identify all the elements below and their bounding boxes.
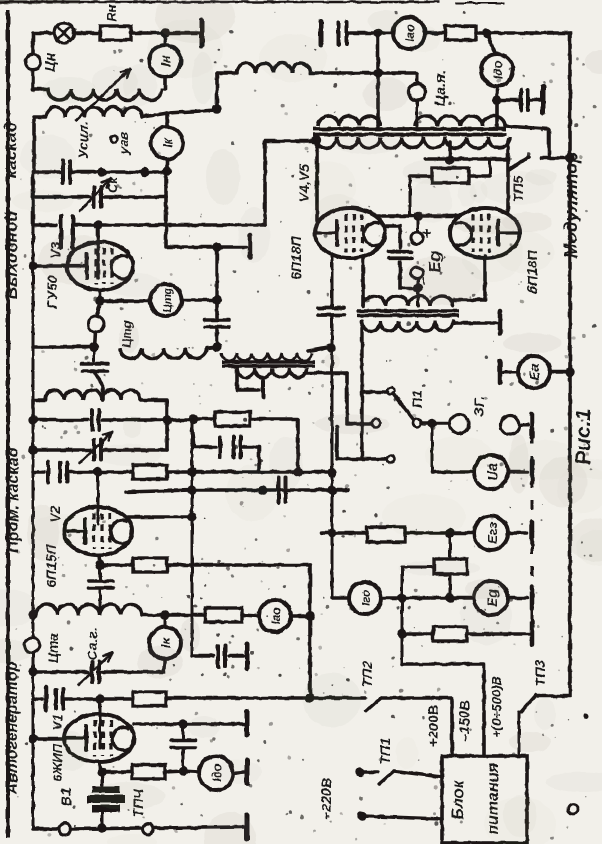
coil mod primary B <box>315 137 510 148</box>
label Rn <box>104 4 119 21</box>
node Eg <box>445 593 454 602</box>
contact P1 a <box>388 388 395 395</box>
bar screen cap <box>218 437 222 457</box>
node cathode choke right <box>212 342 221 351</box>
meter Ido osc <box>199 756 233 790</box>
wire screen cap branch <box>192 430 216 447</box>
wire B+ riser <box>376 33 380 126</box>
scan border left edge <box>6 10 10 838</box>
wire row656 <box>192 654 213 658</box>
svg-text:Егз: Егз <box>485 522 500 544</box>
node choke join <box>212 104 221 113</box>
wire center tap <box>448 142 452 160</box>
capacitor anode <box>172 741 196 748</box>
capacitor row656 <box>218 646 225 667</box>
wire screen R corner <box>250 419 298 472</box>
contact P1 d <box>387 455 395 463</box>
terminal Umg jack <box>88 316 104 332</box>
ground bar drv1 <box>261 381 265 398</box>
label TP3 <box>532 660 548 687</box>
wire Ea to bus <box>550 370 570 374</box>
meter Ido <box>481 54 513 86</box>
wire drv1 bottom right <box>305 371 347 375</box>
node bus coil <box>28 610 37 619</box>
wire anode row b <box>76 223 265 227</box>
wire to screen R <box>194 417 215 421</box>
bar Ua <box>530 461 535 484</box>
wire row699 a <box>33 697 42 701</box>
wire Egz row mid <box>405 531 474 535</box>
wire cath to R <box>102 770 132 774</box>
wire V402 <box>401 567 404 664</box>
node cathode left <box>89 342 98 351</box>
wire Ido right <box>233 772 244 773</box>
resistor V2 grid <box>133 465 167 479</box>
wire bus left main <box>32 172 35 829</box>
svg-text:Сa.г.: Сa.г. <box>84 628 100 661</box>
wire drv1 top right <box>308 343 336 352</box>
wire contact1 feed <box>362 390 388 394</box>
coil mod secondary A <box>415 116 505 126</box>
wire grid row b <box>67 470 133 474</box>
wire 220 upper <box>355 767 378 776</box>
node Ik tap <box>160 610 169 619</box>
stray circle <box>568 804 578 814</box>
node row1 b <box>140 167 149 176</box>
wire winding A out <box>505 126 549 158</box>
plate choke feed <box>217 71 237 75</box>
node A row533 <box>327 528 336 537</box>
wire minus drop <box>417 279 420 288</box>
wire R to Iae <box>242 615 258 616</box>
wire Umg drop <box>215 300 219 318</box>
capacitor V2 cath <box>89 565 114 588</box>
wire crystal down <box>101 812 104 827</box>
meter Ua <box>474 455 508 489</box>
lamp indicator <box>54 23 74 43</box>
meter Iae <box>259 600 291 632</box>
wire TP5 right <box>541 153 575 162</box>
wire plate V5 riser <box>506 140 510 213</box>
node bus 450 <box>28 445 37 454</box>
terminal antenna <box>26 55 41 70</box>
wire drv2 out left <box>360 321 363 459</box>
node bias minus <box>413 283 422 292</box>
wire anode row a <box>33 223 56 227</box>
wire drv2 out right <box>453 321 497 323</box>
coil drv1 top pointy <box>222 353 312 361</box>
wire Igo right <box>381 596 402 600</box>
wire lamp to Rn <box>74 31 100 35</box>
node V1 cathode <box>97 767 106 776</box>
switch TP3 blade <box>521 695 536 712</box>
wire screen row <box>376 214 459 218</box>
capacitor B+ decoupling <box>339 22 347 44</box>
capacitor Ck variable <box>80 179 110 211</box>
wire A to Igo <box>332 596 349 600</box>
node v310 row698 <box>305 693 314 702</box>
capacitor anode coupling <box>61 216 73 248</box>
wire row2 right down <box>166 197 217 247</box>
bar ZG2 <box>530 414 535 437</box>
wire plus200 <box>381 698 452 756</box>
wire Rn to node <box>131 31 165 35</box>
svg-text:~220В: ~220В <box>318 778 334 820</box>
wire anode drop <box>182 724 185 738</box>
wire bias cap branch <box>386 226 400 248</box>
ground bar mod bypass <box>541 87 546 113</box>
wire V2 grid drop <box>97 472 100 524</box>
tube V3 GU50 <box>67 242 133 290</box>
label minus150 <box>456 700 472 741</box>
pin bar row724 <box>245 711 250 735</box>
wire Egz row left <box>322 531 367 535</box>
node Ido tap <box>482 28 491 37</box>
wire v217 down <box>215 247 218 300</box>
svg-text:Еа: Еа <box>526 363 542 380</box>
ground bar drv2 <box>498 311 503 333</box>
node V402 top <box>397 593 406 602</box>
resistor screen <box>215 412 250 426</box>
node V3 cathode <box>95 296 104 305</box>
wire V3 grid cap <box>96 225 100 278</box>
transformer core drv2 <box>357 311 459 316</box>
label Ua anode <box>432 70 449 106</box>
svg-text:ТП3: ТП3 <box>532 660 548 687</box>
label blok <box>450 780 467 820</box>
wire Egz right <box>508 531 527 535</box>
wire TP5 row <box>425 157 507 161</box>
wire cathode row left <box>33 345 94 349</box>
capacitor V2 tank <box>92 410 99 430</box>
svg-text:Цн: Цн <box>42 52 58 71</box>
wire row634 a <box>402 632 433 636</box>
label V3 <box>44 241 63 309</box>
wire bottom row b <box>71 828 141 829</box>
capacitor tank fixed <box>63 161 70 183</box>
meter In <box>149 45 181 77</box>
label V2 <box>43 505 63 588</box>
coil tank L2 <box>46 107 142 117</box>
label Ln <box>42 52 58 71</box>
wire v310 <box>308 565 312 698</box>
pin bar row656 <box>245 644 250 668</box>
wire ZG down <box>431 423 434 472</box>
label Ck <box>105 176 120 193</box>
node row490 a <box>187 485 196 494</box>
wire choke drop <box>215 73 219 109</box>
label modulator <box>561 152 581 259</box>
wire tank row2 b <box>104 195 166 199</box>
node bus 420 <box>28 415 37 424</box>
svg-text:+(0÷500)В: +(0÷500)В <box>489 676 504 738</box>
wire bus left upper <box>31 197 35 225</box>
wire meter Umg right <box>182 298 217 302</box>
meter Iao <box>393 17 425 49</box>
wire TP3 to PSU <box>518 712 521 756</box>
wire L2 right <box>142 113 168 117</box>
wire to ZG jack <box>435 421 448 425</box>
wire Ea bar <box>500 361 517 383</box>
wire right bus <box>538 33 570 696</box>
node row247 <box>212 242 221 251</box>
svg-text:Iго: Iго <box>359 590 373 607</box>
tube V1 6Zh1P <box>64 714 134 762</box>
wire cath row b <box>167 563 310 567</box>
wire anode riser <box>265 141 314 225</box>
terminal bias minus <box>411 267 423 279</box>
contact P1 c <box>372 419 380 427</box>
svg-text:Iао: Iао <box>269 607 283 624</box>
wire contact c feed <box>347 373 371 424</box>
wire cathode stub <box>97 301 100 316</box>
label Umg jack <box>120 320 134 347</box>
node winding A right <box>492 95 501 104</box>
wire row699 long <box>166 696 365 700</box>
label plus0500 <box>489 676 504 738</box>
capacitor screen <box>234 437 241 458</box>
wire row1-row2 right <box>164 172 168 197</box>
dashed line TP3 <box>531 412 534 650</box>
wire grid row c <box>167 470 332 474</box>
resistor V2 cathode <box>133 558 167 572</box>
wire V3 grid left <box>33 264 67 268</box>
wire contact d <box>337 427 386 459</box>
svg-text:+: + <box>419 228 436 237</box>
wire node to Ido <box>183 771 199 772</box>
label TP2 <box>359 661 375 688</box>
wire choke join <box>207 347 217 348</box>
wire bias to ct <box>417 288 420 306</box>
svg-text:Цa.я.: Цa.я. <box>432 70 449 106</box>
wire bottom row c <box>154 827 244 828</box>
wire L2 to Ik <box>165 113 169 127</box>
svg-text:уав: уав <box>116 132 131 155</box>
jack ZG1 <box>450 415 469 434</box>
wire bottom row a <box>33 827 58 831</box>
resistor chain 1 <box>434 559 467 574</box>
node crystal bottom <box>97 823 106 832</box>
resistor osc anode <box>205 608 242 622</box>
transformer core drv1 <box>222 362 315 366</box>
wire Ido drop <box>487 33 495 54</box>
node v192 tank <box>188 414 197 423</box>
label B1 <box>58 787 75 806</box>
wire Ido bottom <box>495 86 499 100</box>
svg-text:П1: П1 <box>409 390 425 408</box>
label autogenerator <box>4 661 21 795</box>
wire Ik osc top <box>164 615 167 627</box>
node row771 <box>178 766 187 775</box>
resistor B+ series <box>445 26 476 40</box>
pin bar row247 <box>248 235 253 257</box>
wire In bottom <box>163 77 167 89</box>
wire tank row2 a <box>33 195 90 199</box>
meter Ik osc <box>149 627 181 659</box>
terminal Ua anode <box>409 73 426 126</box>
coil drv2 top <box>363 296 453 306</box>
svg-text:ТП2: ТП2 <box>359 661 375 688</box>
node V3 grid bus <box>28 261 37 270</box>
wire cap to coil node <box>215 327 219 347</box>
meter Umg <box>150 284 182 316</box>
wire row672 b <box>102 670 164 674</box>
node screen tap <box>413 211 422 220</box>
wire row490 <box>126 490 348 492</box>
svg-text:Rн: Rн <box>104 4 119 21</box>
wire jack down <box>94 332 95 347</box>
wire B+ row c <box>476 31 570 35</box>
wire cath row a <box>100 563 133 567</box>
label TP5 <box>510 176 526 203</box>
wire chain row <box>402 566 434 569</box>
wire V2 plate <box>128 515 192 519</box>
label Usil <box>75 121 91 159</box>
wire V5 cathode link <box>453 298 485 302</box>
node winding B left <box>311 135 320 144</box>
svg-text:Выходной: Выходной <box>2 211 21 299</box>
wire row656 b <box>229 654 243 658</box>
wire P1 b to node <box>421 421 428 425</box>
tube V5 6P18P <box>450 208 520 258</box>
svg-text:Iдо: Iдо <box>491 61 505 79</box>
coil plate choke <box>237 63 310 73</box>
svg-text:Цmg: Цmg <box>162 287 174 312</box>
resistor bias feed <box>432 168 469 183</box>
wire V2 tank row1 a <box>33 418 88 422</box>
label 220V <box>318 778 334 820</box>
wire row672 a <box>33 670 88 674</box>
wire R to node <box>165 771 183 772</box>
wire B+ row b <box>425 31 445 35</box>
jack ZG2 <box>501 416 520 435</box>
wire chain mid <box>449 574 452 598</box>
contact P1 b <box>413 419 421 427</box>
meter Igo <box>349 582 381 614</box>
wire V2 tank row1 b <box>103 418 167 422</box>
svg-text:+200В: +200В <box>425 705 441 747</box>
wire bias feed right <box>469 161 490 176</box>
scan border top edge <box>0 0 505 4</box>
wire tank row1 a <box>33 170 60 174</box>
wire V1 left <box>33 737 64 741</box>
wire 220 upper b <box>394 771 442 777</box>
switch TP2 blade <box>366 698 381 711</box>
terminal bus jack <box>25 638 40 653</box>
node grid192 <box>187 467 196 476</box>
wire row247 to pin <box>217 245 246 249</box>
capacitor mod bypass <box>521 90 528 110</box>
coil drv1 bottom <box>237 368 307 378</box>
switch P1 blade <box>393 393 414 420</box>
capacitor V2 grid <box>60 463 67 482</box>
wire ZG2 bar <box>520 424 528 427</box>
node ZG <box>427 418 436 427</box>
wire A right drop <box>495 100 499 126</box>
label 6P18P left <box>288 235 304 279</box>
capacitor cathode lower <box>82 347 108 371</box>
wire screen cap out <box>241 447 259 472</box>
label ZG <box>471 396 487 417</box>
wire Eg right <box>508 596 527 600</box>
resistor V1 grid <box>133 692 166 706</box>
svg-text:Iк: Iк <box>160 136 175 148</box>
wire node to end bar <box>165 31 198 35</box>
coil cathode choke <box>120 348 207 359</box>
node V1 bus <box>28 734 37 743</box>
wire cathode to meter <box>100 299 150 303</box>
meter Eg <box>474 581 508 615</box>
wire tank tap right <box>168 110 217 113</box>
label TP1 <box>377 738 393 765</box>
wire bias feed left <box>410 176 432 216</box>
svg-text:Цта: Цта <box>45 633 61 664</box>
label Lta <box>45 633 61 664</box>
wire tank row1 b <box>73 170 166 174</box>
coil feedback winding <box>318 116 380 126</box>
node V2 grid <box>93 467 102 476</box>
capacitor V1 grid <box>56 690 63 709</box>
coil drv2 bottom <box>362 321 453 331</box>
wire minus150 <box>402 664 484 756</box>
node V2 plate <box>187 512 196 521</box>
node row1 a <box>97 167 106 176</box>
wire plus drop <box>417 216 420 231</box>
capacitor row490 <box>279 478 286 503</box>
node A row472 <box>327 468 336 477</box>
wire Ua row <box>432 470 474 474</box>
node top right <box>160 28 169 37</box>
wire v192 <box>191 420 194 656</box>
wire cath cap down <box>99 590 102 611</box>
wire B+ row a <box>347 31 393 35</box>
box power supply <box>442 756 527 843</box>
label TP4 <box>130 788 146 818</box>
label V1 <box>50 714 65 782</box>
node V3 anode <box>93 220 102 229</box>
node tank 167 <box>162 415 171 424</box>
meter Egz <box>474 516 508 550</box>
svg-text:–150В: –150В <box>456 700 472 741</box>
label Cag <box>84 628 100 661</box>
bar Eg <box>530 587 535 610</box>
tube V2 6P15P <box>64 507 132 555</box>
svg-text:Пром. каскад: Пром. каскад <box>5 447 22 552</box>
label pitaniya <box>485 763 502 835</box>
crystal holder <box>87 772 125 812</box>
trimmer mark <box>111 132 132 155</box>
label Ris1 <box>572 409 595 465</box>
tube V4 6P18P <box>315 208 385 258</box>
label P1 <box>409 390 425 408</box>
pin bar row827 <box>245 815 250 839</box>
switch TP1 blade <box>379 771 394 784</box>
wire Ik bottom <box>162 159 171 176</box>
coil interstage <box>36 605 142 616</box>
terminal bias plus <box>411 232 423 244</box>
resistor Egz left <box>367 527 405 542</box>
wire V1 grid drop <box>99 699 102 748</box>
meter Ea <box>518 356 550 388</box>
node v310 row616 <box>305 611 314 620</box>
svg-text:Блок: Блок <box>450 780 467 820</box>
switch TP5 blade <box>509 157 529 170</box>
node B+ choke tap <box>373 28 382 37</box>
wire V3 cathode <box>98 290 102 301</box>
label 6P18P right <box>524 249 540 293</box>
wire to bypass cap <box>497 98 518 102</box>
wire choke right <box>310 71 417 75</box>
